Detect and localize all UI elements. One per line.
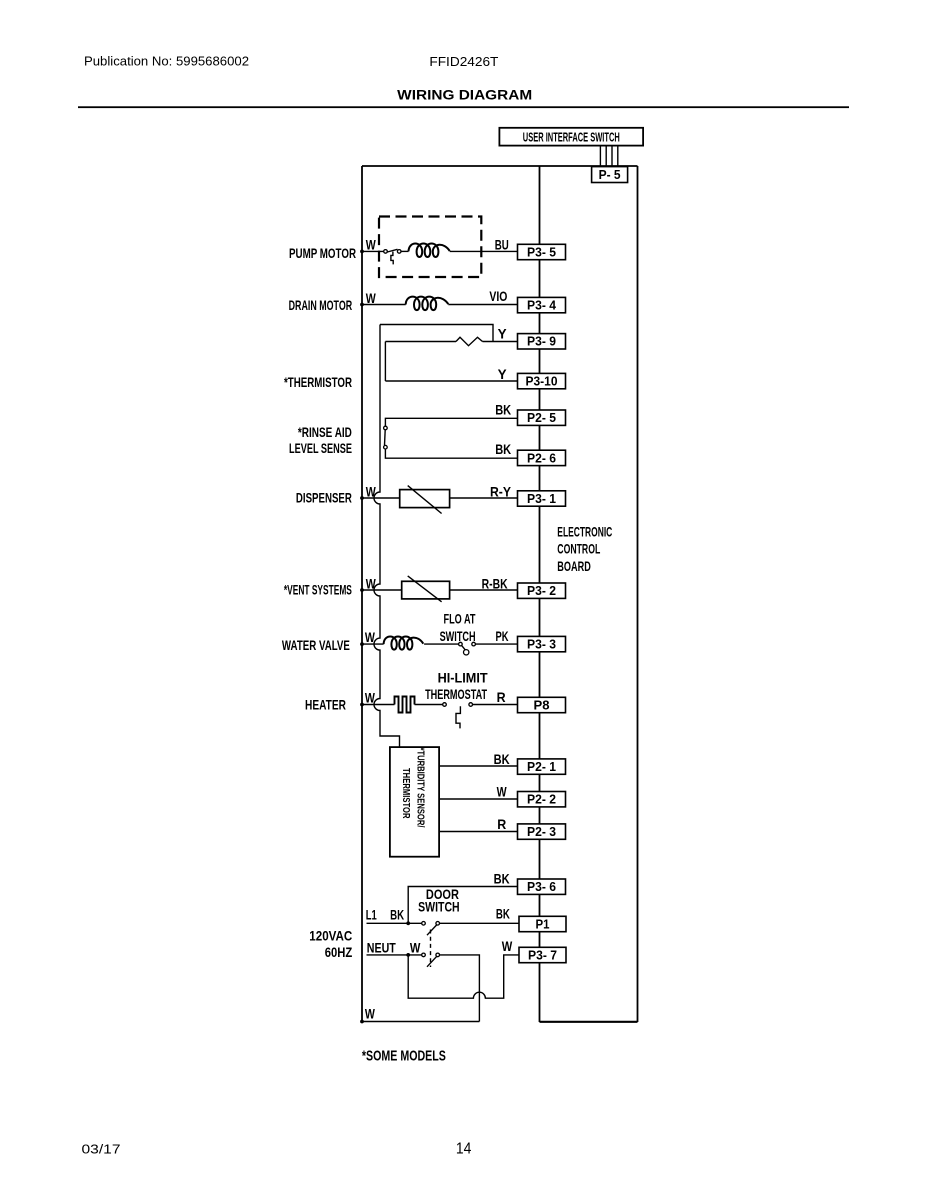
pump motor dashed enclosure: [379, 217, 481, 278]
title rule: [78, 106, 849, 108]
svg-text:SWITCH: SWITCH: [440, 628, 476, 644]
user interface switch box U1: [499, 128, 643, 146]
svg-text:BK: BK: [496, 906, 510, 922]
svg-text:P2- 3: P2- 3: [527, 824, 556, 839]
wire thermistor to P3-9: [385, 341, 456, 343]
svg-text:P2- 6: P2- 6: [527, 450, 556, 465]
svg-text:THERMOSTAT: THERMOSTAT: [425, 686, 487, 702]
wire drain VIO to P3-4: [448, 304, 517, 306]
door switch NEUT contact 1: [422, 953, 426, 957]
svg-text:W: W: [497, 784, 508, 800]
svg-text:VIO: VIO: [489, 288, 507, 304]
wire W bus with hops: [374, 325, 400, 748]
connector P3-3: [518, 636, 566, 651]
wire vent R-BK to P3-2: [450, 589, 518, 591]
float switch blade: [462, 645, 466, 649]
rinse aid switch blade: [384, 430, 387, 446]
wire bottom W return: [362, 1021, 479, 1023]
svg-text:P3- 6: P3- 6: [527, 879, 556, 894]
svg-text:P8: P8: [534, 697, 550, 712]
door switch L1 contact 1: [422, 922, 426, 926]
wire NEUT branch to P3-7 with hop: [408, 955, 519, 998]
svg-text:W: W: [502, 938, 513, 954]
wire dispenser R-Y to P3-1: [450, 497, 518, 499]
connector P-5: [592, 167, 628, 183]
outer cabinet box left edge: [361, 166, 363, 1022]
door switch gang link dashed: [430, 930, 432, 968]
wire rinse aid to P2-5: [385, 418, 517, 426]
dispenser actuator body: [400, 490, 450, 508]
svg-text:60HZ: 60HZ: [325, 944, 353, 960]
svg-text:LEVEL SENSE: LEVEL SENSE: [289, 440, 352, 456]
pump motor winding M1: [409, 244, 450, 258]
connector P3-9: [518, 334, 566, 349]
svg-text:CONTROL: CONTROL: [557, 540, 600, 556]
svg-text:DRAIN MOTOR: DRAIN MOTOR: [289, 297, 353, 313]
svg-text:P1: P1: [536, 916, 550, 931]
svg-text:03/17: 03/17: [82, 1142, 121, 1157]
wire BK to P3-6: [408, 887, 517, 924]
svg-text:P2- 5: P2- 5: [527, 410, 556, 425]
control board bottom edge: [540, 1021, 638, 1023]
wire turbidity BK to P2-1: [439, 765, 517, 767]
float switch contact 1: [459, 642, 463, 646]
svg-text:BOARD: BOARD: [557, 558, 591, 574]
pump motor thermal protector hook: [391, 252, 393, 265]
node W pump motor: [360, 250, 364, 254]
ribbon wires to P-5: [600, 146, 617, 167]
svg-text:WATER VALVE: WATER VALVE: [282, 637, 350, 653]
node W drain motor: [360, 303, 364, 307]
svg-text:P3- 3: P3- 3: [527, 637, 556, 652]
pump motor protector blade: [387, 249, 397, 252]
node W vent: [360, 588, 364, 592]
svg-text:120VAC: 120VAC: [309, 928, 352, 944]
svg-text:W: W: [410, 940, 421, 956]
heater element HE1: [395, 697, 415, 713]
svg-text:*SOME MODELS: *SOME MODELS: [362, 1048, 446, 1065]
svg-text:BK: BK: [495, 402, 511, 418]
door switch L1 blade: [427, 925, 437, 936]
svg-text:WIRING DIAGRAM: WIRING DIAGRAM: [397, 88, 532, 103]
vent actuator body: [402, 581, 450, 599]
svg-text:ELECTRONIC: ELECTRONIC: [557, 524, 612, 540]
svg-text:P3- 9: P3- 9: [527, 334, 556, 349]
svg-text:R: R: [497, 816, 506, 832]
svg-text:HI-LIMIT: HI-LIMIT: [438, 670, 488, 686]
svg-text:BK: BK: [390, 907, 404, 923]
svg-text:FLO AT: FLO AT: [444, 610, 476, 626]
svg-text:Y: Y: [498, 326, 508, 342]
wire R to P8: [472, 704, 517, 706]
wire water valve W: [362, 643, 384, 645]
node W heater: [360, 703, 364, 707]
hi-limit thermostat contact 1: [443, 703, 447, 707]
wire rinse aid to P2-6: [385, 449, 517, 458]
float switch contact 2: [472, 642, 476, 646]
wire thermistor to P3-10: [385, 380, 517, 382]
svg-text:P3-10: P3-10: [526, 374, 558, 389]
svg-text:R-Y: R-Y: [490, 483, 512, 499]
control board divider line: [539, 166, 541, 1022]
connector P2-1: [518, 759, 566, 774]
wire NEUT input: [367, 954, 422, 956]
wire PK to P3-3: [475, 643, 517, 645]
wire L1 input: [367, 922, 422, 924]
svg-text:DISPENSER: DISPENSER: [296, 489, 352, 505]
svg-text:P2- 2: P2- 2: [527, 792, 556, 807]
svg-text:THERMISTOR: THERMISTOR: [400, 768, 411, 819]
float switch ball: [464, 650, 469, 655]
svg-text:P3- 5: P3- 5: [527, 244, 556, 259]
water valve solenoid L1: [384, 636, 424, 649]
connector P3-10: [518, 373, 566, 388]
svg-text:*RINSE AID: *RINSE AID: [298, 424, 352, 440]
svg-text:BU: BU: [495, 237, 509, 253]
svg-text:W: W: [366, 290, 377, 306]
svg-text:*TURBIDITY SENSOR/: *TURBIDITY SENSOR/: [415, 748, 426, 828]
outer cabinet box top edge: [362, 165, 638, 167]
wire to pump winding: [401, 250, 409, 252]
wire turbidity R to P2-3: [439, 831, 517, 833]
pump motor protector switch contact 1: [384, 250, 388, 254]
svg-text:P3- 2: P3- 2: [527, 583, 556, 598]
turbidity sensor box U2: [390, 747, 439, 857]
connector P2-2: [518, 792, 566, 807]
svg-text:W: W: [366, 237, 377, 253]
drain motor winding M2: [406, 297, 449, 311]
wire thermistor top loop: [380, 325, 493, 342]
wire turbidity W to P2-2: [439, 798, 517, 800]
connector P3-2: [518, 583, 566, 598]
dispenser actuator slash: [408, 486, 442, 514]
svg-text:P3- 4: P3- 4: [527, 298, 557, 313]
wire pump motor W: [362, 250, 384, 252]
wire resistor to P3-9: [483, 341, 518, 343]
node W bottom left: [360, 1020, 364, 1024]
rinse aid switch contact 1: [384, 426, 388, 430]
svg-text:L1: L1: [366, 907, 377, 923]
svg-text:P2- 1: P2- 1: [527, 759, 556, 774]
door switch L1 contact 2: [436, 922, 440, 926]
vent actuator slash: [408, 576, 442, 602]
connector P3-6: [518, 879, 566, 894]
connector P3-7: [519, 947, 566, 962]
wire solenoid to float switch: [424, 643, 459, 645]
connector P2-5: [518, 410, 566, 425]
svg-text:BK: BK: [494, 751, 510, 767]
hi-limit thermostat actuator: [456, 706, 460, 728]
connector P2-3: [518, 824, 566, 839]
node NEUT junction: [406, 953, 410, 957]
svg-text:FFID2426T: FFID2426T: [429, 54, 498, 69]
svg-text:SWITCH: SWITCH: [418, 899, 460, 915]
wire heater W: [362, 704, 395, 706]
svg-text:Publication No: 5995686002: Publication No: 5995686002: [84, 54, 249, 69]
connector P2-6: [518, 450, 566, 465]
wire dispenser W: [362, 497, 400, 499]
connector P3-4: [518, 297, 566, 312]
rinse aid switch contact 2: [384, 445, 388, 449]
wire NEUT switched down: [439, 955, 479, 1022]
wire heater to thermostat: [415, 704, 443, 706]
svg-text:BK: BK: [495, 441, 511, 457]
svg-text:P3- 1: P3- 1: [527, 491, 556, 506]
svg-text:R-BK: R-BK: [482, 575, 508, 591]
svg-text:USER INTERFACE SWITCH: USER INTERFACE SWITCH: [523, 129, 620, 144]
node W water valve: [360, 642, 364, 646]
pump motor protector switch contact 2: [397, 250, 401, 254]
outer cabinet box right edge: [637, 166, 639, 1022]
svg-text:P- 5: P- 5: [599, 167, 621, 182]
node L1 BK junction: [406, 921, 410, 925]
door switch NEUT blade: [427, 956, 437, 967]
node W dispenser: [360, 496, 364, 500]
svg-text:*THERMISTOR: *THERMISTOR: [284, 374, 352, 390]
svg-text:NEUT: NEUT: [367, 940, 396, 956]
wire BK to P1: [439, 922, 519, 924]
door switch NEUT contact 2: [436, 953, 440, 957]
svg-text:W: W: [365, 1006, 376, 1022]
svg-text:PK: PK: [496, 628, 509, 644]
svg-text:PUMP MOTOR: PUMP MOTOR: [289, 245, 356, 261]
svg-text:HEATER: HEATER: [305, 697, 346, 713]
svg-text:Y: Y: [498, 366, 508, 382]
connector P3-1: [518, 491, 566, 506]
thermistor resistor RT1: [456, 337, 483, 345]
wire thermistor branch vertical: [384, 342, 386, 382]
hi-limit thermostat contact 2: [469, 703, 473, 707]
wire pump BU to P3-5: [450, 250, 518, 252]
connector P3-5: [518, 244, 566, 259]
svg-text:14: 14: [456, 1140, 472, 1157]
wire drain motor W: [362, 304, 406, 306]
svg-text:BK: BK: [494, 870, 510, 886]
wire vent W: [362, 589, 402, 591]
connector P1: [519, 916, 566, 931]
connector P8: [518, 697, 566, 712]
svg-text:R: R: [497, 689, 506, 705]
svg-text:*VENT SYSTEMS: *VENT SYSTEMS: [284, 582, 352, 598]
svg-text:P3- 7: P3- 7: [528, 947, 557, 962]
